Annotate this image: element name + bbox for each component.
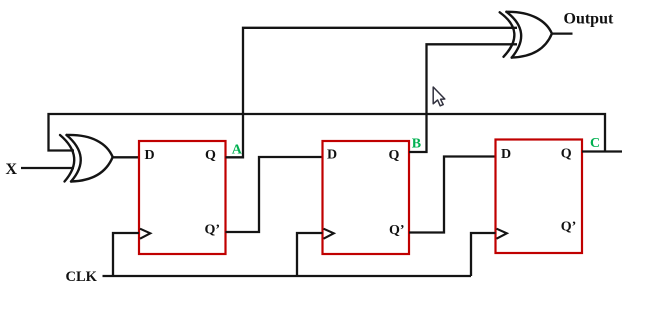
D flip-flop FF3	[496, 140, 583, 254]
wire: CLK main line	[103, 275, 472, 277]
wire: FF1 Q' to FF2 D	[226, 157, 323, 232]
D flip-flop FF1	[139, 141, 226, 254]
svg-text:C: C	[590, 136, 600, 151]
svg-text:D: D	[327, 148, 337, 163]
wire: FF2 Q' to FF3 D	[409, 157, 496, 233]
wire: FF3 Q output stub (node C)	[582, 150, 622, 152]
svg-text:D: D	[501, 147, 511, 162]
FF1 clock input triangle	[140, 229, 150, 239]
wire: XOR1 output to FF1 D	[113, 156, 139, 158]
wire: feedback from node C to XOR1 top input	[49, 114, 606, 152]
svg-text:Q: Q	[561, 147, 572, 162]
wire: CLK branch to FF1 clock	[113, 233, 139, 276]
wire: CLK branch to FF2 clock	[297, 233, 323, 276]
wire: FF1 Q (node A) to XOR2 upper input	[226, 28, 518, 158]
svg-text:Q’: Q’	[389, 223, 405, 238]
svg-text:X: X	[6, 161, 18, 178]
svg-text:A: A	[232, 143, 243, 158]
FF3 clock input triangle	[497, 229, 507, 239]
FF2 clock input triangle	[324, 229, 334, 239]
svg-text:CLK: CLK	[66, 269, 98, 285]
svg-text:Q’: Q’	[561, 220, 577, 235]
xor gate U1	[60, 135, 113, 182]
wire: FF2 Q (node B) to XOR2 lower input	[409, 44, 517, 152]
svg-text:Output: Output	[564, 11, 614, 28]
svg-text:Q: Q	[205, 148, 216, 163]
D flip-flop FF2	[323, 141, 410, 254]
mouse cursor	[433, 87, 445, 106]
svg-text:D: D	[145, 148, 155, 163]
wire: X input to XOR1 lower input	[21, 167, 74, 169]
wire: XOR2 output	[552, 32, 573, 34]
wire: CLK branch to FF3 clock	[471, 233, 496, 276]
svg-text:Q’: Q’	[205, 223, 221, 238]
svg-text:B: B	[412, 137, 421, 152]
svg-text:Q: Q	[389, 148, 400, 163]
xor gate U2	[500, 12, 552, 58]
